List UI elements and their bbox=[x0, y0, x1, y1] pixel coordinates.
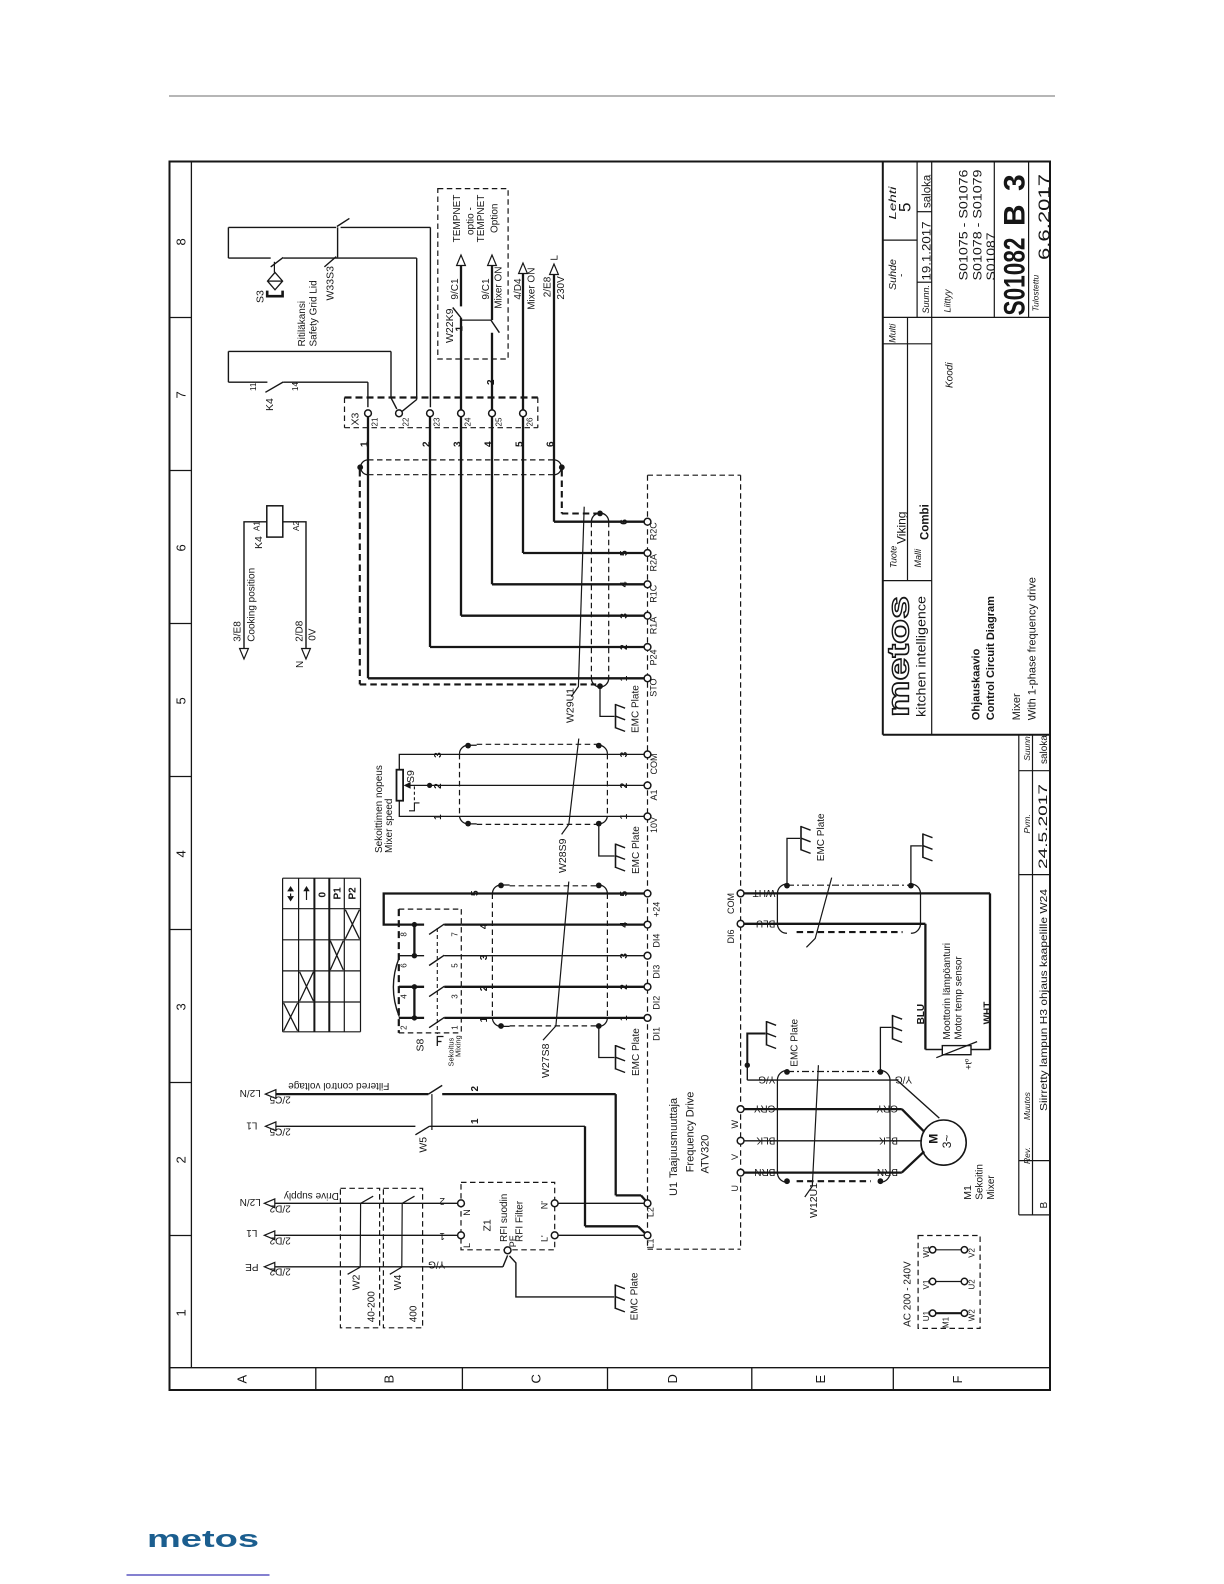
svg-text:TEMPNET: TEMPNET bbox=[452, 195, 463, 243]
svg-text:Ohjauskaavio: Ohjauskaavio bbox=[971, 648, 983, 720]
svg-text:U2: U2 bbox=[968, 1279, 977, 1290]
svg-text:W28S9: W28S9 bbox=[557, 838, 569, 873]
svg-text:Muutos: Muutos bbox=[1022, 1091, 1032, 1120]
drive terminal STO bbox=[644, 675, 651, 682]
svg-text:2/E8: 2/E8 bbox=[543, 276, 554, 297]
cable W4 box bbox=[383, 1188, 422, 1328]
svg-text:S3: S3 bbox=[255, 290, 267, 303]
svg-text:BLK: BLK bbox=[879, 1134, 898, 1145]
svg-text:W22K9: W22K9 bbox=[444, 308, 456, 343]
EMC plate symbol bbox=[893, 1015, 903, 1043]
contact W22K9 pole 1 blade bbox=[453, 308, 461, 318]
wire 4/D4 Mixer ON (wire5 up) bbox=[522, 274, 524, 410]
svg-text:5: 5 bbox=[515, 441, 526, 447]
svg-text:L1: L1 bbox=[646, 1238, 656, 1248]
svg-text:2: 2 bbox=[619, 984, 630, 990]
wire L2/N filtered control voltage bbox=[276, 1093, 429, 1095]
title block outline bbox=[882, 162, 884, 735]
svg-text:9/C1: 9/C1 bbox=[450, 278, 461, 300]
S8 contact row 4-3 bbox=[399, 986, 424, 988]
frame number cell divider bbox=[170, 776, 192, 778]
svg-text:A1: A1 bbox=[253, 521, 262, 531]
wire Z1 N' to L2 bbox=[558, 1202, 644, 1204]
switch S3 contact blade bbox=[271, 257, 284, 267]
svg-text:kitchen intelligence: kitchen intelligence bbox=[915, 596, 929, 717]
terminal X3:23 bbox=[427, 410, 434, 417]
svg-text:Suunn.: Suunn. bbox=[1022, 734, 1032, 761]
cable W27S8 marker line bbox=[543, 882, 569, 1041]
svg-text:9/C1: 9/C1 bbox=[481, 278, 492, 300]
svg-text:7: 7 bbox=[451, 932, 460, 937]
svg-text:Rev.: Rev. bbox=[1022, 1147, 1032, 1164]
svg-text:Safety Grid Lid: Safety Grid Lid bbox=[309, 280, 320, 346]
svg-text:3: 3 bbox=[433, 752, 444, 758]
svg-text:1: 1 bbox=[619, 1015, 630, 1021]
wire S8 to DI1 bbox=[461, 1017, 644, 1019]
EMC plate symbol bbox=[923, 833, 933, 861]
svg-text:5: 5 bbox=[470, 890, 481, 896]
svg-text:E: E bbox=[813, 1375, 828, 1384]
svg-text:B: B bbox=[1039, 1202, 1050, 1209]
svg-text:5: 5 bbox=[451, 963, 460, 968]
drive terminal R1A bbox=[644, 612, 651, 619]
wire K4 lower (to X3:21) bbox=[228, 381, 267, 383]
frame number cell divider bbox=[170, 623, 192, 625]
frame row-number strip divider bbox=[190, 162, 192, 1368]
svg-text:EMC Plate: EMC Plate bbox=[631, 1028, 642, 1076]
svg-text:W2: W2 bbox=[351, 1274, 363, 1290]
wire S9 pin1 to 10V bbox=[399, 801, 644, 817]
S8 mechanical link bbox=[436, 928, 438, 1034]
svg-text:2: 2 bbox=[439, 1195, 445, 1206]
svg-text:400: 400 bbox=[409, 1305, 420, 1322]
svg-text:BLU: BLU bbox=[756, 917, 775, 928]
drive U1 outline (dashed) bbox=[647, 475, 649, 1249]
svg-text:5: 5 bbox=[896, 203, 915, 212]
frame number cell divider bbox=[170, 470, 192, 472]
svg-text:Liittyy: Liittyy bbox=[943, 289, 953, 313]
svg-text:3: 3 bbox=[453, 441, 464, 447]
svg-text:+tº: +tº bbox=[964, 1058, 974, 1070]
svg-text:PE: PE bbox=[245, 1261, 259, 1272]
S8 contact row 6-5 bbox=[399, 955, 424, 957]
svg-text:N': N' bbox=[540, 1201, 550, 1209]
drive terminal P24 bbox=[644, 644, 651, 651]
EMC plate symbol bbox=[767, 1021, 777, 1049]
svg-text:3~: 3~ bbox=[940, 1135, 954, 1149]
svg-text:11: 11 bbox=[249, 382, 258, 391]
svg-text:Control Circuit Diagram: Control Circuit Diagram bbox=[985, 596, 997, 720]
svg-text:W5: W5 bbox=[418, 1137, 430, 1153]
svg-text:L1: L1 bbox=[246, 1120, 258, 1131]
svg-text:4: 4 bbox=[174, 850, 189, 857]
cable W27S8 capsule bbox=[510, 885, 599, 887]
S8 contact row 8-7 bbox=[399, 923, 424, 925]
wire K4 left return bbox=[227, 351, 229, 382]
drive terminal DI1 bbox=[644, 1015, 651, 1022]
frame letter cell divider bbox=[892, 1368, 894, 1390]
wire 6 X3 to drive bbox=[553, 274, 555, 522]
wire 3 X3 to drive bbox=[460, 417, 462, 616]
svg-text:5: 5 bbox=[619, 550, 630, 556]
svg-text:6.6.2017: 6.6.2017 bbox=[1037, 174, 1054, 260]
svg-text:3: 3 bbox=[619, 953, 630, 959]
svg-text:22: 22 bbox=[402, 417, 411, 426]
svg-text:AC 200 - 240V: AC 200 - 240V bbox=[903, 1261, 914, 1327]
S3 actuator stem bbox=[273, 262, 275, 273]
svg-text:R1A: R1A bbox=[649, 617, 659, 635]
wire L1 filtered control voltage bbox=[276, 1125, 416, 1127]
wire Y/G through cable bbox=[777, 1079, 897, 1081]
svg-text:3/E8: 3/E8 bbox=[233, 621, 244, 642]
svg-text:ATV320: ATV320 bbox=[700, 1135, 712, 1174]
wire 9/C1 Mixer ON (wire4 up) bbox=[491, 266, 493, 321]
svg-text:4: 4 bbox=[484, 441, 495, 447]
svg-text:2/D2: 2/D2 bbox=[269, 1235, 291, 1246]
svg-text:6: 6 bbox=[174, 544, 189, 551]
function table bbox=[282, 878, 284, 1032]
svg-text:C: C bbox=[529, 1374, 544, 1383]
svg-text:DI1: DI1 bbox=[652, 1027, 662, 1041]
svg-text:metos: metos bbox=[881, 596, 916, 717]
page header rule (grey) bbox=[169, 95, 1055, 97]
svg-text:2: 2 bbox=[619, 782, 630, 788]
wire coil A1 to 3/E8 arrow bbox=[244, 522, 267, 649]
svg-text:S8: S8 bbox=[415, 1038, 427, 1051]
svg-text:L2/N: L2/N bbox=[240, 1087, 261, 1098]
svg-text:3: 3 bbox=[619, 613, 630, 619]
svg-text:With 1-phase frequency drive: With 1-phase frequency drive bbox=[1027, 577, 1039, 720]
AC 200-240V dashed box bbox=[918, 1236, 980, 1329]
wire S3 upper (X3:23 loop) bbox=[228, 226, 336, 228]
svg-text:B: B bbox=[382, 1375, 397, 1384]
svg-text:2/D8: 2/D8 bbox=[295, 620, 306, 642]
S8 bypass curve rows 6-2 bbox=[393, 958, 399, 1017]
svg-text:S01078 - S01079: S01078 - S01079 bbox=[971, 169, 985, 280]
drive terminal COM bbox=[644, 751, 651, 758]
svg-text:3: 3 bbox=[479, 954, 490, 960]
S8 manual actuator symbol bbox=[437, 1037, 443, 1047]
svg-text:Mixer: Mixer bbox=[986, 1175, 997, 1200]
link V1-U2 bbox=[929, 1278, 935, 1284]
frame number cell divider bbox=[170, 929, 192, 931]
svg-text:Y/G: Y/G bbox=[428, 1259, 445, 1270]
wire drive supply PE bbox=[275, 1266, 503, 1268]
svg-text:2: 2 bbox=[400, 1025, 409, 1030]
S3 actuator diamond bbox=[268, 272, 283, 289]
svg-text:A2: A2 bbox=[292, 521, 301, 531]
svg-text:B: B bbox=[999, 204, 1032, 226]
frame number cell divider bbox=[170, 1082, 192, 1084]
wire3 lower segment bbox=[460, 318, 462, 410]
svg-text:W27S8: W27S8 bbox=[540, 1043, 552, 1078]
svg-text:N: N bbox=[462, 1209, 472, 1216]
drive terminal 10V bbox=[644, 813, 651, 820]
drive terminal W bbox=[737, 1106, 744, 1113]
switch W33S3 blade lower bbox=[324, 257, 336, 267]
Z1 terminal N' bbox=[551, 1200, 558, 1207]
EMC plate symbol bbox=[616, 704, 626, 732]
svg-text:1: 1 bbox=[455, 326, 466, 332]
link U1-W2 (bold) bbox=[929, 1310, 935, 1316]
svg-text:WHT: WHT bbox=[753, 887, 776, 898]
svg-text:V: V bbox=[730, 1154, 740, 1160]
svg-text:STO: STO bbox=[649, 678, 659, 696]
wire K4 upper (to X3:22) bbox=[228, 350, 391, 352]
cable screen capsule at X3 exit bbox=[368, 459, 554, 461]
svg-text:Mixing: Mixing bbox=[454, 1035, 463, 1057]
drive terminal +24 bbox=[644, 890, 651, 897]
drive terminal DI4 bbox=[644, 921, 651, 928]
svg-text:1: 1 bbox=[439, 1230, 445, 1241]
svg-text:EMC Plate: EMC Plate bbox=[631, 685, 642, 733]
potentiometer S9 body bbox=[397, 770, 404, 801]
wire BRN bbox=[744, 1171, 902, 1173]
screen drain wire left (bold dashed) bbox=[359, 470, 361, 684]
drive terminal R1C bbox=[644, 581, 651, 588]
W29U1 screen dot bottom bbox=[597, 683, 603, 689]
sensor cable marker bbox=[806, 878, 831, 948]
svg-text:4: 4 bbox=[619, 922, 630, 928]
svg-text:metos: metos bbox=[147, 1526, 259, 1553]
wire 9/C1 TEMPNET (wire3 up) bbox=[460, 266, 462, 307]
svg-text:Siirretty lampun H3 ohjaus kaa: Siirretty lampun H3 ohjaus kaapelille W2… bbox=[1038, 889, 1050, 1111]
svg-text:Y/G: Y/G bbox=[895, 1074, 912, 1085]
W28S9 screen to EMC plate bbox=[599, 824, 615, 856]
svg-text:W2: W2 bbox=[968, 1309, 977, 1322]
frame letter cell divider bbox=[315, 1368, 317, 1390]
svg-text:10V: 10V bbox=[649, 817, 659, 833]
EMC plate symbol bbox=[615, 1284, 625, 1312]
junction dot wiper bbox=[427, 783, 432, 788]
svg-text:14: 14 bbox=[291, 382, 300, 391]
svg-text:COM: COM bbox=[726, 893, 736, 914]
svg-text:R2A: R2A bbox=[649, 554, 659, 572]
svg-text:4: 4 bbox=[619, 581, 630, 587]
svg-text:1: 1 bbox=[619, 813, 630, 819]
svg-text:M1: M1 bbox=[942, 1316, 951, 1328]
W29U1 screen dot top bbox=[597, 511, 603, 517]
TEMPNET option dashed box bbox=[438, 189, 508, 359]
wire S9 wiper to A1 bbox=[407, 784, 644, 786]
wire to X3:22 from S3 bbox=[416, 258, 418, 399]
contact K4 blade bbox=[265, 382, 283, 392]
svg-text:DI3: DI3 bbox=[652, 965, 662, 979]
svg-text:Ritiläkansi: Ritiläkansi bbox=[297, 301, 308, 347]
sensor cable capsule bbox=[787, 884, 911, 886]
svg-text:Cooking position: Cooking position bbox=[247, 568, 258, 642]
S8 bus junction dots bbox=[412, 922, 417, 927]
drive terminal L1 bbox=[644, 1232, 651, 1239]
frame letter cell divider bbox=[751, 1368, 753, 1390]
wire4 lower segment bbox=[491, 333, 493, 410]
drive terminal DI2 bbox=[644, 983, 651, 990]
svg-text:saloka: saloka bbox=[922, 174, 934, 208]
table header arrows bbox=[287, 886, 294, 891]
svg-text:-: - bbox=[897, 274, 908, 277]
motor temp sensor resistor bbox=[942, 1046, 971, 1055]
wire coil A2 to 2/D8 arrow bbox=[283, 522, 306, 649]
screen dot left bbox=[357, 464, 363, 470]
drive terminal R2A bbox=[644, 550, 651, 557]
contact W22K9 pole 2 blade bbox=[491, 320, 500, 333]
svg-text:M1: M1 bbox=[962, 1185, 974, 1200]
svg-text:4: 4 bbox=[400, 994, 409, 999]
svg-text:Pvm.: Pvm. bbox=[1022, 814, 1032, 833]
cable W4 marker bbox=[390, 1196, 415, 1274]
svg-text:19.1.2017: 19.1.2017 bbox=[920, 221, 934, 280]
svg-text:R1C: R1C bbox=[649, 584, 659, 603]
svg-text:N: N bbox=[295, 661, 306, 668]
svg-text:5: 5 bbox=[619, 891, 630, 897]
frame letter strip divider bbox=[170, 1367, 1051, 1369]
motor M1 circle bbox=[921, 1120, 966, 1165]
cable W2 marker bbox=[348, 1196, 374, 1274]
switch W33S3 blade upper bbox=[337, 218, 350, 226]
W29U1 screen to EMC plate bbox=[600, 686, 615, 716]
drive terminal DI3 bbox=[644, 952, 651, 959]
wire 4 X3 to drive bbox=[491, 417, 493, 585]
svg-text:3: 3 bbox=[619, 751, 630, 757]
sensor wires to resistor bbox=[925, 1049, 942, 1051]
svg-text:25: 25 bbox=[495, 417, 504, 426]
W12U1 screen to EMC plate bbox=[880, 1027, 891, 1072]
S8 bus segment rows 4-2 bbox=[413, 987, 415, 1018]
wire 1 X3 to drive bbox=[367, 417, 369, 679]
svg-text:WHT: WHT bbox=[983, 1002, 994, 1025]
svg-text:Lehti: Lehti bbox=[888, 185, 899, 219]
svg-text:L2: L2 bbox=[646, 1207, 656, 1217]
svg-text:2: 2 bbox=[470, 1086, 481, 1092]
title block grid lines bbox=[916, 162, 918, 318]
svg-text:1: 1 bbox=[174, 1309, 189, 1316]
svg-text:V1: V1 bbox=[922, 1279, 931, 1289]
wire BLU bbox=[744, 923, 925, 925]
wire drive supply L2/N bbox=[275, 1202, 458, 1204]
cable W29U1 capsule bbox=[590, 522, 592, 679]
svg-text:BLU: BLU bbox=[916, 1004, 927, 1025]
svg-text:Taajuusmuuttaja: Taajuusmuuttaja bbox=[668, 1097, 680, 1178]
svg-text:0V: 0V bbox=[308, 628, 319, 641]
svg-text:EMC Plate: EMC Plate bbox=[816, 813, 827, 861]
svg-text:COM: COM bbox=[649, 754, 659, 775]
wire S9 pin3 to COM bbox=[399, 754, 644, 769]
svg-text:A1: A1 bbox=[649, 789, 659, 800]
svg-text:Sekoitin: Sekoitin bbox=[975, 1164, 986, 1200]
svg-text:Malli: Malli bbox=[913, 548, 923, 568]
svg-text:EMC Plate: EMC Plate bbox=[631, 826, 642, 874]
drive terminal DI6 bbox=[737, 920, 744, 927]
svg-text:Z1: Z1 bbox=[482, 1219, 494, 1231]
svg-text:K4: K4 bbox=[253, 536, 265, 549]
frame number cell divider bbox=[170, 1235, 192, 1237]
W22K9 link line bbox=[462, 319, 491, 321]
S3 interlock bracket bbox=[267, 291, 282, 297]
svg-text:Motor temp sensor: Motor temp sensor bbox=[954, 956, 965, 1040]
wire 5 X3 to drive bbox=[522, 417, 524, 553]
svg-text:R2C: R2C bbox=[649, 522, 659, 541]
Y/G to EMC plate bbox=[747, 1034, 765, 1066]
svg-text:Combi: Combi bbox=[920, 504, 932, 540]
junction dot Y/G bbox=[745, 1063, 750, 1068]
svg-text:L': L' bbox=[540, 1235, 550, 1242]
EMC plate symbol bbox=[616, 1045, 626, 1073]
terminal X3:22 bbox=[396, 410, 403, 417]
table X marks bbox=[345, 910, 359, 939]
svg-text:P2: P2 bbox=[348, 887, 359, 900]
W5 link line bbox=[431, 1094, 433, 1130]
svg-text:D: D bbox=[665, 1374, 680, 1383]
cable W28S9 capsule bbox=[477, 743, 599, 745]
svg-text:Tuote: Tuote bbox=[889, 546, 899, 568]
svg-text:1: 1 bbox=[433, 814, 444, 820]
W27S8 screen to EMC plate bbox=[599, 1026, 615, 1058]
svg-text:8: 8 bbox=[174, 238, 189, 245]
svg-text:U: U bbox=[730, 1185, 740, 1192]
svg-text:W33S3: W33S3 bbox=[325, 266, 337, 301]
terminal X3:25 bbox=[489, 410, 496, 417]
svg-text:Mixer speed: Mixer speed bbox=[384, 799, 395, 853]
svg-text:W: W bbox=[730, 1120, 740, 1129]
svg-text:BRN: BRN bbox=[877, 1166, 898, 1177]
EMC plate symbol bbox=[616, 844, 626, 872]
svg-text:Y/G: Y/G bbox=[758, 1074, 775, 1085]
svg-text:A: A bbox=[235, 1375, 250, 1384]
svg-text:W4: W4 bbox=[392, 1274, 404, 1290]
svg-text:1: 1 bbox=[479, 1016, 490, 1022]
svg-text:Multi: Multi bbox=[888, 323, 898, 343]
svg-text:1: 1 bbox=[451, 1025, 460, 1030]
svg-text:RFI Filter: RFI Filter bbox=[515, 1200, 526, 1242]
cable W29U1 marker line bbox=[571, 507, 584, 697]
RFI filter Z1 dashed box bbox=[461, 1182, 555, 1249]
wire Y/G to motor bbox=[897, 1080, 939, 1118]
frame letter cell divider bbox=[607, 1368, 609, 1390]
svg-text:EMC Plate: EMC Plate bbox=[790, 1018, 801, 1066]
Z1 terminal L bbox=[458, 1232, 465, 1239]
svg-text:2/D2: 2/D2 bbox=[269, 1266, 291, 1277]
svg-text:K4: K4 bbox=[264, 398, 276, 411]
Z1 terminal N bbox=[458, 1200, 465, 1207]
svg-text:2: 2 bbox=[486, 379, 497, 385]
switch S8 dashed box bbox=[398, 909, 400, 1033]
wire W33S3 link vertical bbox=[337, 227, 339, 257]
svg-text:2: 2 bbox=[479, 985, 490, 991]
svg-text:2/C5: 2/C5 bbox=[269, 1126, 291, 1137]
svg-text:6: 6 bbox=[546, 441, 557, 447]
terminal X3:24 bbox=[458, 410, 465, 417]
screen to EMC plate (right) bbox=[911, 846, 922, 886]
wiper preset mark bbox=[413, 786, 415, 802]
svg-text:W1: W1 bbox=[922, 1245, 931, 1258]
Z1 terminal PE bbox=[504, 1247, 511, 1254]
wire 2 X3 to drive bbox=[429, 417, 431, 647]
wire Y/G from EMC dot bbox=[747, 1079, 777, 1081]
svg-text:BRN: BRN bbox=[754, 1166, 775, 1177]
svg-text:RFI suodin: RFI suodin bbox=[499, 1194, 510, 1242]
svg-text:0: 0 bbox=[318, 892, 329, 898]
drive terminal U bbox=[737, 1169, 744, 1176]
frame number cell divider bbox=[170, 317, 192, 319]
svg-text:6: 6 bbox=[619, 519, 630, 525]
screen to EMC plate (left) bbox=[787, 838, 800, 885]
drawing frame outer border bbox=[170, 162, 1051, 1391]
svg-text:6: 6 bbox=[400, 963, 409, 968]
svg-text:Filtered control voltage: Filtered control voltage bbox=[288, 1080, 390, 1091]
wire W5 pole1 to L2 bbox=[442, 1093, 616, 1095]
W27S8 screen dots bbox=[498, 883, 504, 889]
terminal X3:21 bbox=[365, 410, 372, 417]
